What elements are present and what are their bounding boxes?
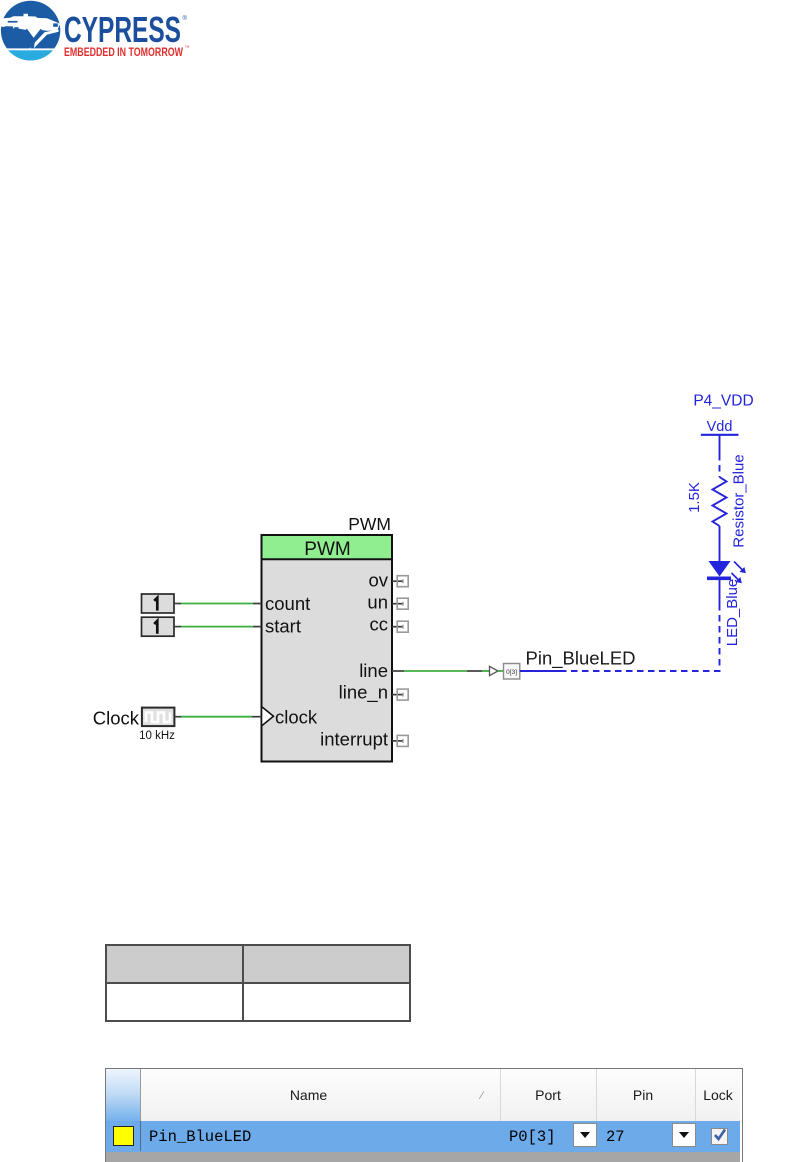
svg-text:Vdd: Vdd <box>707 419 733 435</box>
data row Pin_BlueLED (selected) <box>106 1121 740 1152</box>
yellow color swatch <box>113 1126 134 1146</box>
tree trunk <box>30 39 35 49</box>
svg-text:1.5K: 1.5K <box>686 482 703 513</box>
cell port P0[3] <box>509 1128 556 1146</box>
table column divider <box>242 946 244 1020</box>
canopy branch notch <box>53 23 58 26</box>
header Lock <box>696 1069 740 1121</box>
svg-text:start: start <box>265 616 301 637</box>
constant 1 (count) <box>142 594 175 613</box>
wire clock <box>174 716 261 718</box>
LED LED_Blue <box>707 561 746 583</box>
schematic drawing <box>0 0 786 860</box>
svg-text:Resistor_Blue: Resistor_Blue <box>731 454 748 547</box>
lock checkbox (checked) <box>711 1128 728 1145</box>
white swoosh <box>17 29 59 50</box>
port dropdown button <box>573 1123 597 1147</box>
svg-text:P4_VDD: P4_VDD <box>693 393 753 410</box>
header Name <box>141 1069 501 1121</box>
header Port <box>500 1069 597 1121</box>
power symbol Vdd <box>701 419 739 435</box>
Cypress logo <box>0 0 210 70</box>
svg-text:Clock: Clock <box>93 708 140 729</box>
svg-text:10 kHz: 10 kHz <box>139 730 175 742</box>
resistor Resistor_Blue 1.5K <box>713 477 727 526</box>
wire count <box>174 603 262 605</box>
wire line output <box>392 670 490 672</box>
light blue crescent <box>8 50 53 60</box>
wire vdd to resistor (part dashed) <box>719 435 721 477</box>
terminal cc <box>392 621 408 632</box>
wire resistor to LED <box>719 526 721 561</box>
logo circle <box>0 1 64 61</box>
svg-text:ov: ov <box>368 570 388 591</box>
terminal ov <box>392 576 408 587</box>
empty 2x2 table <box>105 944 411 1022</box>
svg-text:line_n: line_n <box>339 682 388 704</box>
svg-text:Pin_BlueLED: Pin_BlueLED <box>526 648 636 670</box>
pin Pin_BlueLED symbol <box>490 664 520 680</box>
selector column header (blue gradient) <box>106 1069 141 1121</box>
pin dropdown button <box>672 1123 696 1147</box>
svg-text:clock: clock <box>275 707 318 728</box>
grid header row <box>106 1069 740 1121</box>
svg-text:interrupt: interrupt <box>320 729 388 750</box>
sort indicator <box>481 1090 490 1099</box>
svg-text:0[3]: 0[3] <box>506 669 517 676</box>
pin assignment grid <box>105 1068 743 1162</box>
svg-text:PWM: PWM <box>304 539 350 560</box>
table header row <box>107 946 409 984</box>
canopy branch speck <box>14 27 18 28</box>
terminal line_n <box>392 689 408 700</box>
cell pin 27 <box>606 1128 625 1146</box>
svg-text:line: line <box>359 660 388 681</box>
svg-text:cc: cc <box>370 614 389 635</box>
selector cell with yellow swatch <box>106 1121 141 1151</box>
clock source Clock <box>142 708 175 727</box>
constant 1 (start) <box>142 617 175 636</box>
wire start <box>174 626 262 628</box>
svg-text:LED_Blue: LED_Blue <box>724 579 741 647</box>
canopy lower-left branch patch <box>5 26 14 29</box>
canopy branch wisp <box>8 21 18 23</box>
tree canopy white band <box>0 14 60 40</box>
empty grid area (gray) <box>106 1152 740 1162</box>
clock input chevron <box>262 707 274 727</box>
tree branch arms (dark V) <box>26 29 42 39</box>
cell name Pin_BlueLED <box>149 1128 251 1146</box>
header Pin <box>597 1069 696 1121</box>
PWM block U1 body <box>262 535 393 762</box>
svg-text:PWM: PWM <box>348 514 391 534</box>
svg-text:count: count <box>265 593 310 614</box>
white gap above crescent <box>0 48 64 50</box>
terminal interrupt <box>392 735 408 746</box>
svg-text:un: un <box>367 592 388 613</box>
terminal un <box>392 598 408 609</box>
wire pin to LED (blue, part dashed) <box>520 578 720 671</box>
